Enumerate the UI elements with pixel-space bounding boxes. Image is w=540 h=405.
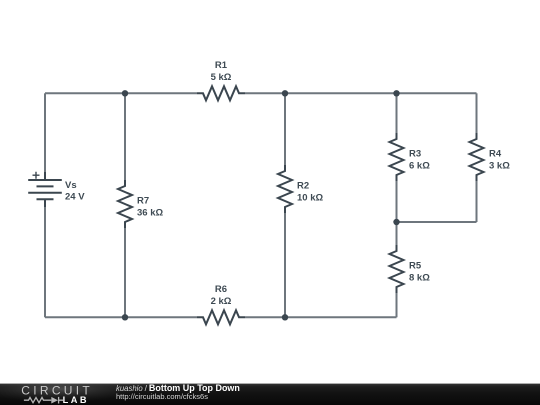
wire R2 top xyxy=(284,93,286,165)
svg-text:R7: R7 xyxy=(137,195,149,206)
resistor R1 xyxy=(197,86,245,100)
svg-text:R5: R5 xyxy=(409,260,422,271)
resistor R5 xyxy=(390,245,404,293)
footer bar xyxy=(0,384,540,405)
wire R5 bottom xyxy=(396,293,398,317)
svg-text:R2: R2 xyxy=(297,180,309,191)
wire R4 bottom xyxy=(476,181,478,222)
svg-text:3 kΩ: 3 kΩ xyxy=(489,160,510,171)
node junction R2 top xyxy=(282,90,288,96)
battery Vs top terminal xyxy=(44,172,46,180)
battery Vs plate short xyxy=(37,185,54,187)
svg-text:36 kΩ: 36 kΩ xyxy=(137,207,163,218)
wire R4 top xyxy=(476,93,478,133)
wire bottom rail right segment xyxy=(245,316,397,318)
svg-text:http://circuitlab.com/cfcks6s: http://circuitlab.com/cfcks6s xyxy=(116,392,208,401)
svg-text:2 kΩ: 2 kΩ xyxy=(211,296,232,307)
wire R7 bottom xyxy=(124,228,126,317)
svg-text:R3: R3 xyxy=(409,148,421,159)
resistor R3 xyxy=(390,133,404,181)
svg-text:R4: R4 xyxy=(489,148,502,159)
logo resistor zigzag xyxy=(24,398,51,403)
svg-text:R1: R1 xyxy=(215,60,228,71)
svg-text:10 kΩ: 10 kΩ xyxy=(297,192,323,203)
wire node B horizontal xyxy=(397,221,477,223)
wire left vertical upper xyxy=(44,93,46,172)
logo diode symbol xyxy=(51,397,58,404)
node junction R3/R5/R4 xyxy=(393,219,399,225)
node junction R3 top xyxy=(393,90,399,96)
footer bar logo glow xyxy=(0,376,138,402)
node junction R7 top xyxy=(122,90,128,96)
wire R5 top xyxy=(396,222,398,245)
resistor R6 xyxy=(197,310,245,324)
svg-text:6 kΩ: 6 kΩ xyxy=(409,160,430,171)
battery Vs plate long top xyxy=(28,179,62,181)
resistor R4 xyxy=(470,133,484,181)
wire top rail left segment xyxy=(45,92,197,94)
battery plus sign xyxy=(33,172,40,179)
wire R7 top xyxy=(124,93,126,180)
svg-text:Vs: Vs xyxy=(65,180,77,191)
svg-text:R6: R6 xyxy=(215,284,227,295)
wire left vertical lower xyxy=(44,207,46,317)
wire top rail right segment xyxy=(245,92,477,94)
svg-text:5 kΩ: 5 kΩ xyxy=(211,72,232,83)
node junction R7 bottom xyxy=(122,314,128,320)
wire R3 bottom xyxy=(396,181,398,222)
node junction R2 bottom xyxy=(282,314,288,320)
battery Vs plate long xyxy=(28,192,62,194)
wire bottom rail left segment xyxy=(45,316,197,318)
svg-text:8 kΩ: 8 kΩ xyxy=(409,272,430,283)
wire R2 bottom xyxy=(284,213,286,317)
svg-text:LAB: LAB xyxy=(63,395,89,405)
svg-text:24 V: 24 V xyxy=(65,192,85,203)
battery Vs plate short bottom xyxy=(37,198,54,200)
battery Vs bottom terminal xyxy=(44,199,46,207)
wire R3 top xyxy=(396,93,398,133)
resistor R7 xyxy=(118,180,132,228)
resistor R2 xyxy=(278,165,292,213)
